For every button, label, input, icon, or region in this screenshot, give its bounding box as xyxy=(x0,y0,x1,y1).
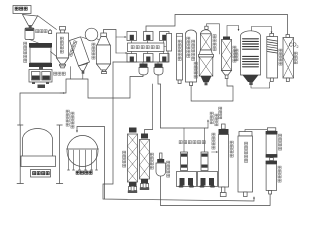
compressor discharge header to columns xyxy=(113,51,168,62)
synthesis tower R xyxy=(238,132,253,197)
gasifier furnace xyxy=(29,43,52,70)
svg-text:2: 2 xyxy=(297,45,299,49)
gas holder bell xyxy=(23,129,53,156)
sphere feed line xyxy=(77,127,105,200)
circulator base 2 xyxy=(180,172,218,187)
D label (vertical) xyxy=(92,43,95,59)
inclined waste-heat boiler B xyxy=(70,37,90,74)
bottom wire ST to N xyxy=(251,82,270,88)
svg-text:CO: CO xyxy=(289,43,297,49)
bus note text xyxy=(210,112,218,126)
note text above copper tower I xyxy=(219,107,222,119)
gasifier label (vertical) xyxy=(24,42,27,62)
gas holder label box 储气柜 xyxy=(31,170,51,178)
circulator bus and risers xyxy=(161,127,209,129)
arrow on gas holder line xyxy=(60,92,65,94)
regenerator column M xyxy=(222,37,232,79)
lower long bus to ammonia separator xyxy=(161,176,271,206)
column F label xyxy=(150,153,153,169)
overhead jumper ST to N xyxy=(252,27,272,34)
sphere tank xyxy=(67,136,98,167)
P1 drain piping to gas holder xyxy=(20,75,143,126)
vertical note text near sphere xyxy=(66,110,74,128)
surge vessel V1 xyxy=(25,28,34,40)
separator Q2 label xyxy=(278,166,281,182)
circulator compressor label xyxy=(179,141,205,144)
water scrubber column E xyxy=(128,128,138,194)
scrubbing tower K xyxy=(199,26,212,54)
column E label xyxy=(123,151,126,167)
copper wash tower I xyxy=(219,124,229,197)
raw gas compressor: top cylinder boxes xyxy=(127,32,169,41)
boiler B label (rotated vertical) xyxy=(69,41,77,57)
side auxiliary box of compressor xyxy=(166,34,171,52)
feed hopper funnel xyxy=(23,15,38,26)
electrostatic precipitator D xyxy=(97,33,111,74)
desulfurizer vessel L xyxy=(199,54,214,85)
compressor main body xyxy=(128,41,165,52)
wire C to D xyxy=(97,39,101,41)
small ammonia water pot G xyxy=(156,153,166,176)
top overhead bus from compressor to decarb column xyxy=(146,15,288,38)
wire B lower-left down xyxy=(70,67,72,80)
label 汇集合 with small icon xyxy=(36,30,52,34)
wire gasifier to column A xyxy=(51,52,57,57)
gas holder outer tank walls xyxy=(17,125,63,184)
tower I labels xyxy=(212,133,233,157)
ammonia scrubber column F xyxy=(140,134,150,191)
ammonia separator Q2 xyxy=(266,161,277,194)
hopper outlet stem xyxy=(29,26,32,29)
sphere label 球罐贮槽 xyxy=(76,171,92,174)
CO2 absorber column xyxy=(283,35,294,82)
jumper R to water cooler Q xyxy=(245,130,267,132)
gas tank column TT with text xyxy=(186,30,197,86)
scrubber column A xyxy=(57,27,69,68)
circulator cylinder 1 xyxy=(181,128,188,171)
water cooler Q xyxy=(266,128,278,161)
main trunk line down xyxy=(103,62,254,201)
sphere equator support xyxy=(67,148,99,150)
wire V1 to gasifier xyxy=(30,40,43,45)
shift converter ST (coil column) xyxy=(241,31,261,85)
sphere legs xyxy=(69,150,97,170)
CO2 text label xyxy=(289,43,299,50)
column A label (vertical) xyxy=(60,37,63,53)
regeneration column N (hatched top) xyxy=(267,34,278,82)
pot G label xyxy=(167,161,170,177)
column N label xyxy=(279,49,282,65)
blower unit xyxy=(29,70,52,85)
branch to column F xyxy=(152,84,154,130)
cyclone circle C xyxy=(85,28,98,41)
column M label xyxy=(233,46,236,62)
converter ST label xyxy=(235,49,238,61)
separator pot P2 xyxy=(154,62,163,75)
column CO2 side label xyxy=(294,52,297,64)
coal bin box with label xyxy=(13,6,31,14)
small motor under blower xyxy=(38,85,46,89)
overhead jumper M to shift converter xyxy=(227,26,239,37)
tall narrow column T177 xyxy=(177,34,183,84)
vessel L label xyxy=(194,62,197,78)
wire hopper to scrubber column A xyxy=(38,16,57,30)
wire B outlet down xyxy=(82,74,84,79)
blower label 鼓风车 xyxy=(54,72,66,75)
drain loop TT to M bottom xyxy=(191,79,233,102)
P2 drain down to circulator bus xyxy=(158,75,161,129)
circulator cylinder 2 xyxy=(201,128,208,171)
cooler Q label xyxy=(279,134,282,150)
circulator base 1 xyxy=(177,172,197,187)
wire D top to compressor feeds xyxy=(104,30,117,54)
separator pot P1 xyxy=(139,62,148,75)
tower K label xyxy=(213,35,216,51)
wire B to C xyxy=(82,37,87,39)
feed stub into tower I xyxy=(212,151,218,153)
gas holder band xyxy=(21,156,56,167)
compressor bottom boxes xyxy=(127,52,169,63)
overhead jumper K to L inlet xyxy=(207,24,220,54)
